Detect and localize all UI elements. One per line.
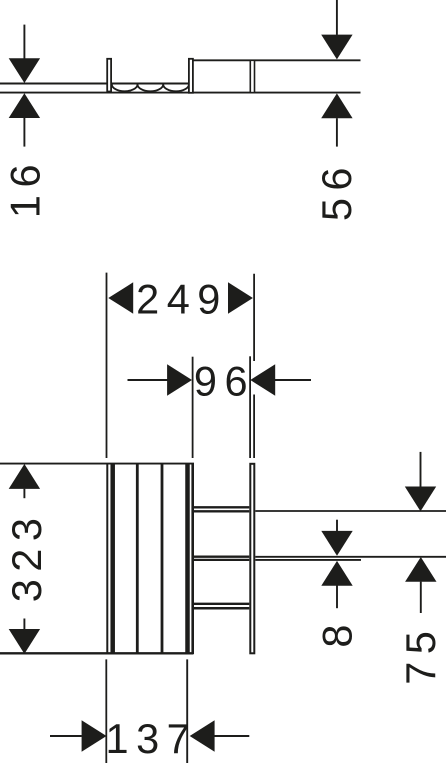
svg-text:323: 323 (3, 511, 50, 603)
ext 249 right (253, 274, 255, 458)
left thick stripe (110, 463, 115, 654)
right thick stripe (185, 463, 190, 654)
svg-text:75: 75 (397, 624, 444, 685)
dim 75 arrows (405, 452, 437, 613)
dim 16 (9, 25, 40, 147)
box bottom edge + 323 extension (0, 652, 194, 654)
ext line bar1 right (255, 510, 446, 512)
dim 323 arrows (9, 464, 40, 654)
left tab (107, 59, 111, 92)
dim 8 arrows (321, 520, 352, 609)
svg-text:56: 56 (313, 160, 360, 221)
dim 137 arrows (50, 720, 249, 751)
svg-text:249: 249 (136, 276, 228, 323)
ext 96 right (249, 356, 251, 458)
corrugation arcs (112, 84, 189, 91)
box top edge + 323 extension (0, 463, 194, 465)
rail (250, 464, 254, 654)
svg-text:8: 8 (314, 617, 361, 648)
bar 3 (194, 603, 249, 605)
bar 2 (194, 556, 249, 558)
stripe line (161, 463, 164, 654)
ext line bar2 top right (255, 556, 446, 558)
svg-text:137: 137 (106, 715, 198, 762)
ext 96 left (192, 357, 194, 458)
plate bottom line (0, 92, 361, 94)
right tab wall (189, 59, 193, 93)
ext 137 left (105, 659, 107, 763)
ext line bar2 bottom right (255, 559, 361, 561)
svg-text:16: 16 (1, 157, 48, 218)
bar 1 (194, 506, 249, 508)
dim 56 (321, 0, 352, 147)
box right edge (191, 463, 194, 654)
dim 96 arrows (128, 364, 312, 395)
box top line (193, 59, 361, 61)
ext 137 right (186, 659, 188, 763)
box left edge (106, 463, 108, 654)
mid double line (250, 60, 254, 92)
ext 249 left (106, 273, 108, 458)
dim 249 arrows (108, 282, 253, 313)
plate top line (0, 83, 193, 85)
stripe line (136, 463, 139, 654)
svg-text:96: 96 (194, 357, 255, 404)
